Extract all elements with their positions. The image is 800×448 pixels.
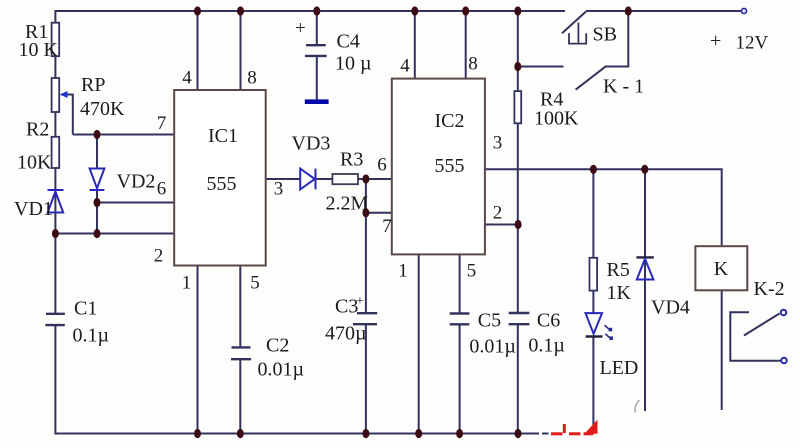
- wire VD3 to R3: [316, 178, 333, 180]
- svg-text:LED: LED: [600, 357, 639, 379]
- svg-text:12V: 12V: [736, 33, 769, 54]
- svg-text:1: 1: [182, 273, 192, 294]
- wire IC2 pin5 to C5: [459, 254, 461, 313]
- svg-text:1: 1: [398, 261, 408, 282]
- wire top rail right segment: [586, 10, 744, 12]
- wire C3 to bottom rail: [365, 324, 367, 433]
- wire K coil to lower end: [721, 290, 723, 410]
- junction dots middle: [52, 62, 648, 238]
- capacitor C2: [231, 347, 251, 359]
- svg-text:C4: C4: [337, 31, 360, 53]
- svg-text:C1: C1: [74, 298, 97, 320]
- svg-text:K: K: [714, 258, 729, 280]
- svg-text:K - 1: K - 1: [603, 76, 644, 98]
- capacitor C3: [353, 313, 377, 324]
- potentiometer RP wiper arrow: [60, 91, 68, 98]
- relay contact K-2: [730, 310, 787, 364]
- diode VD4: [637, 259, 654, 280]
- svg-text:470K: 470K: [80, 98, 125, 120]
- wire IC1 pin8: [240, 11, 242, 90]
- op IC2 555 box: [392, 79, 485, 255]
- diode VD3: [300, 169, 315, 190]
- wire C5 to bottom rail: [459, 324, 461, 433]
- svg-text:5: 5: [250, 273, 260, 294]
- capacitor C5: [450, 314, 470, 325]
- resistor R1: [52, 23, 60, 57]
- wire R3 to IC2 pin6: [358, 178, 392, 180]
- svg-text:555: 555: [435, 155, 465, 177]
- resistor R3: [332, 174, 358, 184]
- wire R1 to RP: [54, 56, 56, 78]
- op IC1 555 box: [174, 90, 266, 266]
- svg-text:7: 7: [157, 113, 167, 134]
- svg-text:VD4: VD4: [651, 297, 690, 319]
- junction dots top rail: [194, 6, 632, 15]
- wire C4 lower lead: [316, 56, 318, 100]
- svg-text:4: 4: [400, 56, 410, 77]
- svg-text:+: +: [356, 294, 364, 309]
- junction dots bottom rail: [194, 429, 522, 438]
- svg-text:SB: SB: [593, 24, 617, 46]
- wire IC1 pin2: [55, 233, 174, 235]
- wire LED to lower end: [592, 337, 594, 429]
- svg-text:2.2M: 2.2M: [326, 193, 369, 215]
- svg-text:10 µ: 10 µ: [335, 53, 372, 75]
- wire IC1 pin5 to C2: [239, 266, 241, 348]
- diode VD1: [48, 190, 64, 213]
- svg-text:+: +: [710, 30, 721, 52]
- svg-text:VD1: VD1: [14, 198, 53, 220]
- svg-text:6: 6: [377, 155, 387, 176]
- red dashed bottom segments: [551, 424, 593, 434]
- wire IC1 pin6: [97, 202, 174, 204]
- wire IC1 pin1 to bottom rail: [197, 266, 199, 434]
- svg-text:C5: C5: [478, 310, 501, 332]
- wire R4 to C6 and bottom rail: [517, 123, 519, 313]
- svg-text:555: 555: [207, 173, 237, 195]
- wire C4 from top rail: [316, 11, 318, 45]
- svg-text:R3: R3: [340, 149, 363, 171]
- wire IC1 pin3 to VD3: [266, 178, 301, 180]
- wire IC2 pin8: [465, 11, 467, 79]
- svg-text:6: 6: [157, 179, 167, 200]
- svg-text:K-2: K-2: [754, 278, 785, 300]
- wire IC1 pin7: [73, 134, 174, 136]
- svg-text:0.01µ: 0.01µ: [469, 336, 516, 358]
- svg-text:C3: C3: [335, 296, 358, 318]
- svg-text:IC1: IC1: [208, 125, 238, 147]
- svg-text:2: 2: [493, 203, 503, 224]
- wire RP wiper to pin7 node: [61, 95, 73, 135]
- potentiometer RP body: [52, 78, 60, 112]
- wire R2 to VD1: [54, 168, 56, 190]
- switch SB pushbutton actuator: [569, 23, 586, 44]
- wire node to VD2: [96, 135, 98, 169]
- wire C2 to bottom rail: [239, 359, 241, 433]
- diode VD4 cathode bar: [636, 256, 653, 258]
- resistor R5: [590, 258, 598, 291]
- wire R4 column from top rail: [517, 11, 519, 91]
- wire bottom rail: [55, 433, 539, 435]
- diode VD2: [90, 169, 105, 191]
- resistor R4: [514, 91, 521, 123]
- svg-text:VD2: VD2: [117, 171, 156, 193]
- wire IC2 pin2: [485, 224, 518, 226]
- svg-text:10 K: 10 K: [19, 39, 59, 61]
- svg-text:IC2: IC2: [435, 110, 465, 132]
- svg-text:7: 7: [382, 216, 392, 237]
- wire left column from rail to R1: [54, 10, 56, 24]
- wire bottom rail dash: [542, 433, 549, 435]
- wire C6 to bottom rail: [517, 324, 519, 433]
- wire RP to R2: [54, 112, 56, 137]
- svg-text:8: 8: [247, 68, 257, 89]
- capacitor C1: [45, 314, 64, 325]
- stray gray curl: [635, 400, 640, 413]
- svg-text:8: 8: [468, 54, 478, 75]
- wire IC2 pin4: [414, 11, 416, 79]
- switch K-1 blade: [576, 66, 607, 90]
- svg-text:C6: C6: [537, 310, 560, 332]
- svg-text:0.01µ: 0.01µ: [258, 359, 305, 381]
- LED emission arrows: [605, 325, 613, 340]
- switch SB blade: [562, 12, 586, 34]
- wire K-1 branch left: [518, 66, 564, 68]
- svg-text:+: +: [295, 18, 306, 39]
- wire R5 to LED: [592, 291, 594, 314]
- wire IC2 pin3 output: [485, 169, 722, 246]
- svg-text:0.1µ: 0.1µ: [528, 335, 565, 357]
- wire IC2 pin7: [366, 212, 392, 214]
- svg-text:C2: C2: [266, 335, 289, 357]
- svg-text:RP: RP: [81, 74, 105, 96]
- +12V terminal circle: [741, 8, 746, 13]
- capacitor C4 plates: [305, 45, 327, 56]
- svg-text:4: 4: [182, 68, 192, 89]
- capacitor C6: [509, 313, 530, 324]
- svg-text:1K: 1K: [607, 282, 632, 304]
- wire C1 to bottom rail: [54, 325, 56, 434]
- wire VD2 to pin2 wire: [96, 190, 98, 234]
- wire IC1 pin4: [197, 11, 199, 90]
- svg-text:470µ: 470µ: [325, 323, 367, 345]
- svg-text:10K: 10K: [17, 152, 52, 174]
- red marker triangle at LED lead base: [585, 420, 598, 434]
- svg-text:0.1µ: 0.1µ: [73, 325, 110, 347]
- wire VD1 through node to C1: [54, 190, 56, 314]
- wire VD4 column: [644, 169, 646, 411]
- resistor R2: [52, 137, 60, 168]
- wire top rail left segment: [55, 10, 565, 12]
- relay coil K box: [695, 246, 747, 290]
- wire pin7 node down to C3: [365, 213, 367, 314]
- svg-text:2: 2: [154, 246, 164, 267]
- capacitor C4 ground bar: [305, 99, 329, 104]
- svg-text:VD3: VD3: [292, 133, 331, 155]
- svg-text:100K: 100K: [534, 108, 579, 130]
- wire pin6 node down to pin7 node: [365, 179, 367, 213]
- svg-text:R5: R5: [607, 259, 630, 281]
- svg-text:3: 3: [274, 179, 284, 200]
- svg-text:5: 5: [467, 261, 477, 282]
- svg-text:3: 3: [493, 133, 503, 154]
- wire K-1 branch right: [606, 11, 628, 67]
- LED cathode bar: [586, 335, 603, 337]
- wire R5 column upper: [592, 169, 594, 257]
- wire IC2 pin1 to bottom rail: [418, 254, 420, 433]
- svg-text:R2: R2: [26, 119, 49, 141]
- LED diode triangle: [586, 313, 603, 334]
